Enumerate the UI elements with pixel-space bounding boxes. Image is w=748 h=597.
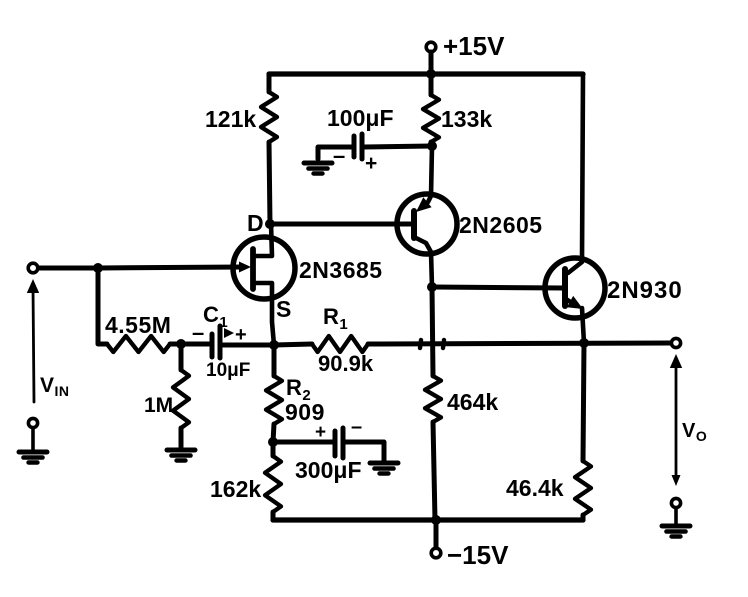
2N3685 drain lead: [253, 224, 272, 256]
wire R2 bottom: [273, 424, 274, 442]
wire +15V stem: [429, 52, 434, 74]
2N930 collector lead: [568, 74, 583, 273]
ground 1M: [167, 450, 195, 461]
junction input node: [93, 263, 103, 273]
svg-text:+15V: +15V: [443, 31, 505, 61]
node D junction: [265, 219, 275, 229]
resistor 4.55M: [107, 336, 170, 352]
svg-text:162k: 162k: [210, 476, 261, 502]
svg-text:4.55M: 4.55M: [105, 312, 171, 338]
2N3685 channel bar: [250, 249, 256, 289]
junction 2N2605 collector: [427, 282, 437, 292]
wire 46.4k bottom: [581, 515, 586, 520]
wire Vin ground stem: [31, 428, 35, 450]
wire R2 top: [272, 345, 277, 376]
resistor 46.4k: [575, 461, 591, 515]
resistor 464k: [425, 376, 441, 422]
2N3685 gate arrow: [239, 262, 251, 273]
wire R1 left: [274, 344, 312, 345]
crossover tick marks: [420, 340, 444, 348]
resistor R1 90.9k: [312, 336, 368, 352]
transistor Q3 2N930 circle: [545, 258, 605, 318]
junction 4.55M / 1M / C1: [176, 339, 186, 349]
wire 4.55M right: [170, 342, 181, 347]
junction +15V rail: [426, 69, 436, 79]
wire 300uF left: [273, 440, 333, 445]
wire 100uF left: [318, 147, 352, 159]
wire 464k bottom: [433, 422, 435, 520]
terminal input: [28, 263, 38, 273]
wire gate: [98, 267, 244, 268]
svg-text:2N930: 2N930: [607, 277, 683, 304]
2N2605 collector lead: [414, 237, 432, 287]
svg-text:+: +: [365, 152, 378, 175]
junction 133k / 100uF / 2N2605 emitter: [427, 141, 437, 151]
2N930 base bar: [562, 269, 568, 306]
wire C1 left: [181, 342, 209, 347]
wire 100uF right: [364, 146, 432, 147]
capacitor 100uF plates: [352, 136, 357, 157]
wire 300uF right: [345, 442, 384, 460]
transistor Q1 2N3685 JFET circle: [233, 237, 295, 299]
resistor 133k: [423, 95, 439, 142]
wire R1 to output: [368, 343, 671, 344]
terminal -15V: [431, 548, 441, 558]
wire 133k bottom: [431, 142, 432, 146]
wire 2N930 emitter down: [582, 308, 584, 343]
2N2605 base bar: [411, 211, 417, 238]
wire D to 2N2605 base: [270, 222, 412, 227]
wire -15V stem: [434, 520, 439, 548]
wire 46.4k top: [583, 343, 584, 461]
Vo arrow head up: [670, 354, 682, 368]
junction R2 / 300uF / 162k: [268, 437, 278, 447]
svg-text:46.4k: 46.4k: [506, 475, 564, 501]
2N930 emitter lead: [566, 299, 572, 303]
ground Vo: [662, 526, 690, 537]
svg-text:+: +: [235, 324, 247, 346]
svg-text:–: –: [192, 320, 205, 345]
svg-text:–: –: [351, 416, 363, 438]
ground 100uF: [304, 163, 332, 174]
wire +15V rail: [269, 71, 583, 76]
wire 162k top: [271, 442, 276, 456]
resistor 1M: [173, 370, 189, 428]
capacitor C1 plates: [210, 334, 215, 357]
2N2605 emitter arrow: [416, 197, 432, 212]
wire 2N2605 collector to 2N930 base: [432, 287, 563, 288]
wire input to gate junction: [38, 266, 98, 271]
transistor Q2 2N2605 circle: [397, 194, 457, 254]
ground 300uF: [370, 463, 398, 474]
Vo arrow line: [675, 362, 678, 480]
svg-text:10μF: 10μF: [206, 360, 250, 381]
svg-text:2N2605: 2N2605: [459, 212, 543, 238]
svg-text:90.9k: 90.9k: [318, 351, 374, 376]
wire Vo ground stem: [674, 508, 678, 524]
wire 1M top: [179, 344, 184, 370]
Vin arrow line: [33, 287, 34, 402]
2N2605 emitter lead: [428, 146, 432, 202]
ground Vin: [19, 452, 47, 463]
wire -15V rail: [273, 517, 583, 522]
svg-text:–: –: [333, 143, 346, 168]
C1 polarity arrow: [224, 328, 234, 338]
svg-text:D: D: [247, 210, 264, 236]
2N3685 source lead: [253, 283, 274, 345]
wire 464k top: [432, 287, 433, 376]
svg-text:121k: 121k: [205, 106, 256, 132]
wire input branch down: [98, 268, 107, 344]
svg-text:+: +: [315, 422, 327, 443]
junction S node: [269, 340, 279, 350]
wire 1M bottom: [179, 428, 184, 447]
capacitor 300uF plates: [333, 431, 338, 456]
svg-text:300μF: 300μF: [295, 457, 362, 483]
wire C1 right: [223, 343, 274, 348]
svg-text:S: S: [276, 296, 291, 322]
resistor R2 909: [266, 376, 282, 424]
resistor 121k: [261, 92, 277, 142]
terminal Vo ground: [671, 498, 680, 507]
resistor 162k: [265, 456, 281, 512]
Vin arrow head up: [27, 279, 39, 293]
wire 121k bottom: [269, 142, 270, 224]
svg-text:−15V: −15V: [447, 540, 509, 570]
svg-text:464k: 464k: [447, 389, 498, 415]
wire 121k top: [267, 74, 272, 92]
svg-text:133k: 133k: [441, 106, 492, 132]
svg-text:2N3685: 2N3685: [299, 257, 383, 283]
svg-text:100μF: 100μF: [327, 105, 394, 131]
terminal +15V: [426, 42, 436, 52]
svg-text:1M: 1M: [144, 394, 173, 417]
junction output node: [579, 338, 589, 348]
terminal output: [671, 338, 680, 347]
wire 133k top: [429, 74, 434, 95]
Vo arrow head down: [672, 475, 681, 486]
wire 162k bottom: [271, 512, 276, 520]
junction -15V rail: [431, 515, 441, 525]
2N930 emitter arrow: [567, 296, 583, 309]
terminal Vin ground: [28, 418, 37, 427]
